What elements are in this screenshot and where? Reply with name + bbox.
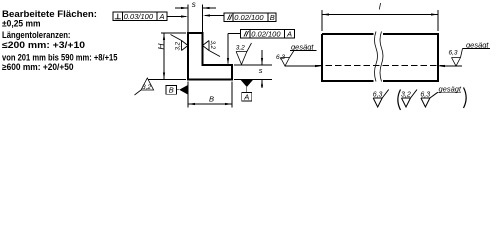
bottom note: roughness 3,2 — [401, 90, 417, 108]
extension line l left — [321, 10, 323, 31]
dimension s top — [175, 0, 216, 9]
roughness 3,2 right of leg (tip left) — [203, 41, 221, 57]
dimension s right — [259, 50, 263, 88]
side view bar — [316, 32, 444, 82]
gesägt callout right end — [438, 41, 490, 68]
svg-text:s: s — [259, 66, 263, 75]
extension line B left — [187, 82, 189, 108]
svg-text:B: B — [169, 86, 174, 95]
datum B triangle — [166, 85, 188, 95]
svg-text:B: B — [209, 95, 214, 104]
extension line s right — [202, 5, 204, 33]
svg-text:3,2: 3,2 — [175, 41, 182, 50]
svg-text:A: A — [243, 93, 249, 102]
leader FCF parallelism A — [227, 34, 241, 66]
extension line B right — [231, 82, 233, 108]
dimension H — [156, 33, 166, 80]
svg-text:0.03/100: 0.03/100 — [124, 12, 154, 21]
svg-text:±0,25 mm: ±0,25 mm — [2, 19, 41, 29]
roughness 3,2 left of leg (tip right) — [171, 35, 189, 51]
centerline — [316, 65, 444, 67]
open paren — [398, 90, 401, 111]
svg-text:≤200 mm: +3/+10: ≤200 mm: +3/+10 — [2, 40, 85, 50]
leader FCF parallelism B — [203, 14, 224, 16]
extension line H bottom — [148, 79, 186, 81]
svg-text:3,2: 3,2 — [142, 84, 151, 91]
svg-text:Längentoleranzen:: Längentoleranzen: — [2, 30, 71, 40]
dimension l — [322, 2, 438, 16]
svg-text:0.02/100: 0.02/100 — [234, 13, 264, 22]
svg-text:6,3: 6,3 — [373, 92, 383, 99]
note text block — [2, 9, 118, 72]
dimension B — [188, 95, 232, 106]
svg-text:B: B — [270, 13, 275, 22]
gesägt callout left end — [276, 43, 322, 68]
bottom note: roughness 6,3 gesägt — [420, 92, 437, 107]
extension line s2 top — [234, 64, 272, 66]
bottom note: roughness 6,3 — [373, 90, 389, 108]
svg-text:von 201 mm bis 590 mm: +8/+15: von 201 mm bis 590 mm: +8/+15 — [2, 53, 118, 63]
svg-text:6,3: 6,3 — [276, 54, 285, 61]
svg-text:A: A — [286, 30, 292, 39]
datum A triangle — [240, 80, 253, 102]
extension line s left — [187, 5, 189, 33]
FCF parallelism A — [241, 30, 295, 39]
extension line s2 bottom — [234, 79, 272, 81]
close paren — [464, 88, 467, 109]
svg-text:3,2: 3,2 — [209, 41, 216, 50]
svg-text:A: A — [159, 12, 165, 21]
extension line H top — [161, 32, 186, 34]
svg-text:6,3: 6,3 — [420, 92, 430, 99]
break curve left — [375, 32, 378, 82]
break curve right — [380, 32, 383, 82]
svg-text:s: s — [192, 0, 196, 9]
svg-text:H: H — [156, 43, 166, 50]
svg-text:0.02/100: 0.02/100 — [251, 30, 281, 39]
svg-text:6,3: 6,3 — [449, 50, 458, 57]
FCF perpendicularity — [113, 12, 167, 21]
svg-text:3,2: 3,2 — [401, 92, 411, 99]
roughness 3,2 bottom surface (flipped up) — [135, 78, 154, 95]
svg-text:≥600 mm: +20/+50: ≥600 mm: +20/+50 — [2, 62, 74, 72]
profile outline — [188, 33, 232, 80]
FCF parallelism B — [224, 13, 276, 22]
extension line l right — [437, 10, 439, 31]
svg-text:3,2: 3,2 — [236, 45, 245, 52]
roughness 3,2 top of horizontal leg — [236, 43, 252, 65]
leader FCF perpendicularity — [167, 15, 188, 17]
